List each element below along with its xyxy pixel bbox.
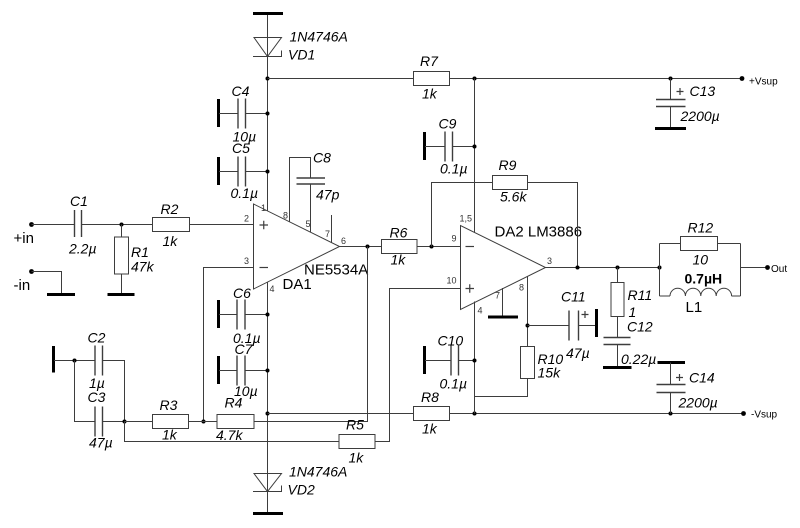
svg-text:2.2µ: 2.2µ (68, 241, 97, 257)
svg-text:1N4746A: 1N4746A (289, 464, 347, 480)
svg-text:7: 7 (325, 229, 330, 239)
resistor R2 (153, 218, 190, 232)
terminal -Vsup (741, 411, 746, 416)
svg-text:2200µ: 2200µ (680, 108, 720, 124)
wire DA2 pin 4 rail down (474, 302, 476, 414)
svg-text:0.1µ: 0.1µ (440, 376, 468, 392)
resistor R10 (521, 347, 535, 379)
ground (C14) (658, 361, 686, 364)
svg-text:R4: R4 (225, 395, 243, 411)
resistor R5 (339, 435, 375, 449)
feedback resistor R9 loop (432, 183, 493, 247)
svg-text:0.1µ: 0.1µ (440, 161, 468, 177)
svg-text:4: 4 (270, 284, 275, 294)
zener diode VD2 (253, 474, 282, 492)
node: C4 / +V rail (266, 112, 270, 116)
svg-text:C7: C7 (235, 341, 254, 357)
svg-text:3: 3 (244, 256, 249, 266)
svg-text:R6: R6 (390, 225, 408, 241)
wire node to R3 (125, 421, 153, 423)
wire +V node to R7 (268, 78, 414, 80)
svg-text:C5: C5 (232, 140, 250, 156)
svg-text:47p: 47p (316, 187, 340, 203)
capacitor C2 (95, 346, 125, 422)
svg-text:C8: C8 (313, 150, 331, 166)
ground (-in) (47, 293, 75, 296)
ground (C12) (603, 366, 632, 369)
svg-text:0.1µ: 0.1µ (231, 185, 259, 201)
node: +V rail / C13 (669, 77, 673, 81)
op-amp DA2 LM3886 (461, 226, 546, 310)
svg-text:1k: 1k (422, 86, 438, 102)
capacitor C9 (425, 132, 475, 162)
wire -in to ground (32, 272, 62, 295)
svg-text:4.7k: 4.7k (216, 427, 243, 443)
svg-text:+in: +in (14, 230, 34, 247)
svg-text:C4: C4 (232, 83, 250, 99)
capacitor C14 (electrolytic) (657, 363, 686, 414)
svg-text:DA1: DA1 (283, 276, 312, 293)
svg-text:C2: C2 (88, 330, 106, 346)
svg-text:R8: R8 (421, 389, 439, 405)
svg-text:3: 3 (547, 256, 552, 266)
svg-text:1N4746A: 1N4746A (290, 29, 348, 45)
svg-text:R12: R12 (688, 220, 714, 236)
resistor R6 (382, 240, 418, 254)
svg-text:1k: 1k (349, 450, 365, 466)
capacitor C8 with pin 8 / pin 5 legs (290, 158, 326, 233)
resistor R8 (414, 407, 450, 421)
svg-text:VD2: VD2 (288, 482, 315, 498)
capacitor C11 (electrolytic) (528, 309, 597, 341)
svg-text:1k: 1k (422, 421, 438, 437)
capacitor C13 (656, 79, 686, 129)
resistor R7 (414, 72, 450, 86)
svg-text:1k: 1k (162, 427, 178, 443)
svg-text:5: 5 (306, 219, 311, 229)
R12 / L1 parallel network (660, 244, 741, 297)
svg-text:5.6k: 5.6k (500, 189, 527, 205)
wire VD2 to ground (267, 492, 269, 514)
node: DA1 out / R4 feedback (366, 245, 370, 249)
wire R6 to DA2 pin 9 (417, 246, 461, 248)
wire R1 to ground (121, 274, 123, 295)
capacitor C12 (604, 338, 631, 368)
svg-text:8: 8 (519, 283, 524, 293)
ground (C13) (655, 127, 686, 130)
node: C6 / -V rail of DA1 (266, 313, 270, 317)
svg-text:R9: R9 (499, 157, 517, 173)
node: VD1 / R7 junction (266, 77, 270, 81)
wire node X down to R5 line (125, 422, 340, 442)
terminal +Vsup (740, 76, 745, 81)
wire DA1 pin 3 (204, 268, 254, 422)
svg-text:-in: -in (14, 277, 31, 294)
wire -V rail to R8 (268, 413, 414, 415)
svg-text:0.7µH: 0.7µH (685, 271, 723, 287)
node: pin 8 / C11 / R10 (526, 324, 530, 328)
wire R2 to DA1 pin 2 (190, 224, 254, 226)
terminal -in (29, 269, 34, 274)
svg-text:R7: R7 (420, 53, 439, 69)
node: rail / R8 wire (266, 412, 270, 416)
wire VD1 cathode to +V node (267, 57, 269, 211)
svg-text:C13: C13 (690, 83, 716, 99)
capacitor C3 (75, 361, 125, 437)
svg-text:10: 10 (693, 252, 709, 268)
wire R3 to R4 (189, 421, 218, 423)
resistor R12 (681, 237, 718, 251)
svg-text:2200µ: 2200µ (678, 395, 718, 411)
capacitor C6 (219, 300, 268, 330)
terminal +in (29, 222, 34, 227)
wire DA2 pin 8 down (527, 276, 529, 347)
wire R9 to DA2 output (528, 183, 578, 268)
svg-text:1,5: 1,5 (460, 214, 473, 224)
ground (C2/C3) (52, 346, 55, 373)
node: R6 / R9 / pin 9 (430, 245, 434, 249)
op-amp DA1 NE5534A (254, 204, 340, 289)
pin 7 stub (DA1) (331, 215, 333, 243)
wire +V rail to DA2 pins 1,5 (474, 79, 476, 233)
ground (DA2 pin 7) (488, 288, 518, 317)
ground (R1) (108, 293, 135, 296)
resistor R4 (217, 415, 254, 429)
svg-text:+Vsup: +Vsup (749, 77, 778, 88)
svg-text:4: 4 (478, 306, 483, 316)
terminal Out (765, 265, 770, 270)
node: C7 / -V rail of DA1 (266, 369, 270, 373)
ground (top, above VD1) (253, 12, 283, 15)
zener diode VD1 (253, 38, 282, 57)
wire ground to C2 node (54, 360, 95, 362)
svg-text:1: 1 (261, 203, 266, 213)
svg-text:VD1: VD1 (288, 47, 315, 63)
node: R8 / DA2 -V (473, 412, 477, 416)
svg-text:7: 7 (495, 291, 500, 301)
svg-text:Out: Out (771, 264, 787, 275)
svg-text:C14: C14 (689, 370, 715, 386)
svg-text:R3: R3 (160, 397, 178, 413)
svg-text:0.22µ: 0.22µ (621, 351, 656, 367)
svg-text:C6: C6 (233, 285, 251, 301)
svg-text:C10: C10 (438, 333, 464, 349)
svg-text:15k: 15k (538, 365, 562, 381)
svg-text:-Vsup: -Vsup (751, 410, 778, 421)
svg-text:R2: R2 (161, 201, 179, 217)
wire R10 to -V rail (475, 379, 528, 397)
svg-text:C3: C3 (88, 389, 106, 405)
svg-text:1k: 1k (163, 233, 179, 249)
wire DA2 output line (546, 267, 660, 269)
wire R7 to +Vsup terminal (450, 78, 743, 80)
svg-text:R11: R11 (628, 287, 653, 303)
capacitor C5 (219, 157, 268, 187)
svg-text:47µ: 47µ (89, 435, 113, 451)
node: C9 / +V rail (473, 145, 477, 149)
wire DA1 pin 4 rail down (267, 282, 269, 473)
resistor R11 (611, 268, 624, 338)
node: output / R11 (616, 266, 620, 270)
wire +in to C1 (32, 224, 75, 226)
node: ground / C2 / C3 (73, 359, 77, 363)
capacitor C1 (75, 210, 82, 237)
node: C2 / C3 / R3 / R5 (123, 420, 127, 424)
node: C1 / R1 / R2 (120, 223, 124, 227)
wire to Out terminal (741, 267, 768, 269)
svg-text:47k: 47k (131, 259, 155, 275)
svg-text:C1: C1 (70, 193, 88, 209)
capacitor C7 (219, 356, 268, 386)
svg-text:1k: 1k (391, 252, 407, 268)
ground (VD2) (253, 512, 283, 515)
capacitor C10 (425, 346, 475, 376)
resistor R1 (115, 237, 129, 274)
svg-text:C9: C9 (439, 116, 457, 132)
svg-text:C11: C11 (561, 289, 586, 305)
svg-text:8: 8 (283, 211, 288, 221)
svg-text:10: 10 (447, 276, 457, 286)
node: R3 / R4 / pin3 (202, 420, 206, 424)
inductor L1 (660, 288, 741, 296)
wire DA1 output to R6 (340, 246, 382, 248)
node: C10 / -V rail (473, 359, 477, 363)
wire node to R1 (121, 225, 123, 238)
svg-text:R5: R5 (346, 417, 364, 433)
svg-text:47µ: 47µ (566, 345, 590, 361)
resistor R3 (153, 415, 189, 429)
wire R4 to DA1 output (feedback) (254, 247, 368, 422)
wire ground to VD1 anode (267, 15, 269, 38)
node: output / R12-L1 (658, 266, 662, 270)
svg-text:2: 2 (244, 214, 249, 224)
svg-text:C12: C12 (627, 319, 653, 335)
svg-text:NE5534A: NE5534A (304, 262, 368, 279)
capacitor C4 (219, 99, 268, 129)
svg-text:L1: L1 (686, 299, 703, 316)
svg-text:6: 6 (341, 236, 346, 246)
svg-text:DA2 LM3886: DA2 LM3886 (495, 224, 583, 241)
resistor R9 (493, 176, 528, 190)
wire R5 to DA2 pin 10 (375, 289, 461, 442)
node: output / R9 feedback (576, 266, 580, 270)
node: +V rail / DA2 supply (473, 77, 477, 81)
wire R8 to -Vsup rail (450, 413, 744, 415)
svg-text:9: 9 (452, 234, 457, 244)
wire C1 to R2 (82, 224, 153, 226)
node: -V rail / C14 (669, 412, 673, 416)
node: C5 / +V rail (266, 170, 270, 174)
